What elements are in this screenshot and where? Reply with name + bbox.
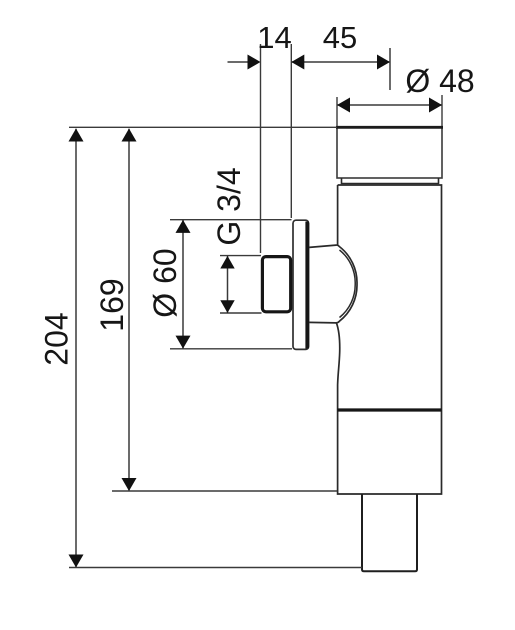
svg-text:204: 204 [39, 312, 75, 365]
arrowhead 204 top [69, 129, 84, 142]
extension line 204 bottom (pipe bottom) [69, 567, 362, 569]
arrowhead Ø60 bottom [176, 336, 191, 349]
svg-text:Ø 60: Ø 60 [147, 248, 183, 317]
arrowhead 204 bottom [69, 555, 84, 568]
valve cap top edge (thick) [336, 126, 443, 129]
arrowhead 169 top [122, 129, 137, 142]
arrowhead 45 left [291, 55, 304, 70]
body axis tick line [389, 48, 391, 90]
wall flange plate (Ø60 rosette) [293, 220, 309, 349]
extension line Ø60 bottom (flange bottom) [170, 348, 292, 350]
extension line 169 bottom (body bottom) [112, 490, 337, 492]
arrowhead Ø48 left [337, 98, 350, 113]
extension line above cap left [336, 97, 338, 126]
svg-text:169: 169 [94, 278, 130, 331]
valve cap (top section, Ø48) [337, 127, 442, 178]
dimension line 14 (left leader with arrow) [228, 61, 251, 63]
extension line above cap right [441, 95, 443, 126]
arrowhead 169 bottom [122, 478, 137, 491]
dimension line Ø60 [182, 220, 184, 349]
svg-text:45: 45 [323, 20, 357, 55]
extension line Ø60 top (flange top) [170, 219, 292, 221]
svg-text:14: 14 [257, 20, 291, 55]
arrowhead G3/4 top [220, 256, 234, 269]
svg-text:G 3/4: G 3/4 [211, 167, 247, 245]
extension line at button face (x=260.5) [260, 44, 262, 253]
body joint line (thick) [338, 408, 442, 411]
svg-text:Ø 48: Ø 48 [405, 63, 474, 99]
actuator dome inner highlight curve [340, 250, 356, 318]
arrowhead Ø48 right [429, 98, 442, 113]
arrowhead 45 right [377, 55, 390, 70]
dimension line G3/4 [227, 256, 229, 313]
flange right edge (thick 3d edge) [305, 222, 309, 349]
extension line G3/4 bottom (button bottom) [220, 312, 262, 314]
arrowhead G3/4 bottom [220, 300, 234, 313]
arrowhead 14 pointing right [248, 55, 261, 70]
top extension line (cap top level) [69, 126, 337, 128]
dimension line 169 [128, 129, 130, 491]
dimension line 45 [291, 61, 390, 63]
dimension line 204 [75, 129, 77, 568]
collar ring below cap [342, 178, 439, 184]
extension line G3/4 top (button top) [220, 255, 261, 257]
extension line at flange face (x=291.3) [290, 44, 292, 218]
valve main body [336, 185, 441, 494]
outlet pipe at bottom [362, 494, 417, 571]
dimension line Ø48 [337, 104, 442, 106]
actuator dome outer curve [309, 245, 357, 323]
arrowhead Ø60 top [176, 220, 191, 233]
push button (G 3/4 connector) [262, 257, 290, 312]
